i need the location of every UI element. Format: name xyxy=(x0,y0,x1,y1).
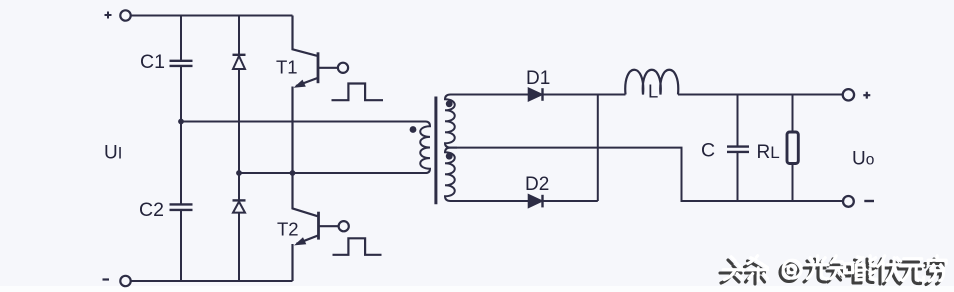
watermark shadow layer xyxy=(720,259,943,285)
input + terminal xyxy=(105,10,131,20)
capacitor C (output filter) xyxy=(727,147,749,152)
capacitor C1 xyxy=(170,61,193,66)
wire secondary top to D1 xyxy=(455,94,529,96)
wire D2 to junction xyxy=(543,200,598,202)
node junction dot (diode branch / midpoint wire) xyxy=(236,170,242,176)
svg-text:C2: C2 xyxy=(139,199,164,221)
wire rectifier junction vertical xyxy=(597,95,599,202)
diode D1 xyxy=(529,88,543,101)
wire resistor RL branch top xyxy=(792,95,794,133)
transformer secondary top winding xyxy=(445,95,457,148)
svg-text:D2: D2 xyxy=(525,174,549,195)
wire center tap to output - rail xyxy=(457,148,843,201)
wire middle 2 (midpoint to primary bottom) xyxy=(239,172,426,174)
node junction dot (C1/C2 midpoint) xyxy=(178,119,184,125)
gate drive pulse for T1 xyxy=(332,84,384,101)
wire capacitor C branch top xyxy=(737,95,739,147)
inductor L xyxy=(625,70,678,95)
capacitor C2 xyxy=(170,204,193,210)
svg-text:RL: RL xyxy=(757,142,780,163)
svg-text:T2: T2 xyxy=(277,219,299,240)
wire secondary bottom to D2 xyxy=(455,200,529,202)
svg-text:Uo: Uo xyxy=(852,149,874,170)
wire middle 1 (midpoint to primary top) xyxy=(181,121,426,123)
transistor T1 xyxy=(293,16,349,174)
transformer primary winding xyxy=(420,122,430,174)
wire C1 to C2 xyxy=(180,66,182,204)
transformer secondary bottom winding xyxy=(445,148,457,201)
wire C2 bottom xyxy=(180,210,182,281)
bottom rail wire xyxy=(131,280,293,282)
transformer primary phase dot xyxy=(410,126,417,133)
wire C1 branch top xyxy=(180,16,182,61)
node junction dot (T1 emitter / T2 collector) xyxy=(290,170,296,176)
transformer secondary top phase dot xyxy=(446,100,453,107)
wire D1 to inductor xyxy=(543,94,626,96)
wire diode branch middle (crosses middle wire 1) xyxy=(238,69,240,173)
wire diode branch bottom xyxy=(238,213,240,281)
svg-text:UI: UI xyxy=(104,143,122,164)
svg-text:D1: D1 xyxy=(526,68,550,89)
diode D2 xyxy=(529,195,543,208)
input - terminal xyxy=(103,276,131,286)
gate drive pulse for T2 xyxy=(333,238,382,255)
wire diode branch to lower diode xyxy=(238,173,240,200)
transistor T2 xyxy=(293,173,349,281)
wire capacitor C branch bottom xyxy=(737,152,739,201)
transformer secondary bottom phase dot xyxy=(446,153,453,160)
output - terminal xyxy=(843,196,874,207)
watermark white layer xyxy=(723,256,946,282)
svg-text:C1: C1 xyxy=(140,51,165,73)
output + terminal xyxy=(843,89,871,100)
diode (antiparallel across T2) xyxy=(233,200,246,212)
top rail wire xyxy=(131,15,293,17)
transformer core xyxy=(434,97,437,205)
diode (antiparallel across T1) xyxy=(233,55,246,69)
wire L to + output xyxy=(678,94,843,96)
wire diode branch top xyxy=(238,16,240,55)
wire resistor RL branch bottom xyxy=(792,164,794,202)
svg-text:C: C xyxy=(701,140,715,162)
svg-text:L: L xyxy=(648,81,658,102)
svg-text:T1: T1 xyxy=(276,57,298,78)
resistor RL xyxy=(787,132,798,164)
